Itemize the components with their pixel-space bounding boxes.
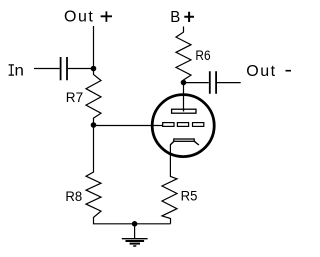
svg-text:n: n — [15, 63, 24, 80]
svg-text:B: B — [170, 9, 180, 26]
svg-text:Out: Out — [246, 63, 276, 80]
svg-text:R6: R6 — [195, 47, 210, 63]
svg-text:Out: Out — [64, 9, 94, 26]
svg-text:R5: R5 — [181, 188, 198, 204]
svg-text:R8: R8 — [65, 188, 82, 204]
svg-text:R7: R7 — [66, 89, 83, 105]
